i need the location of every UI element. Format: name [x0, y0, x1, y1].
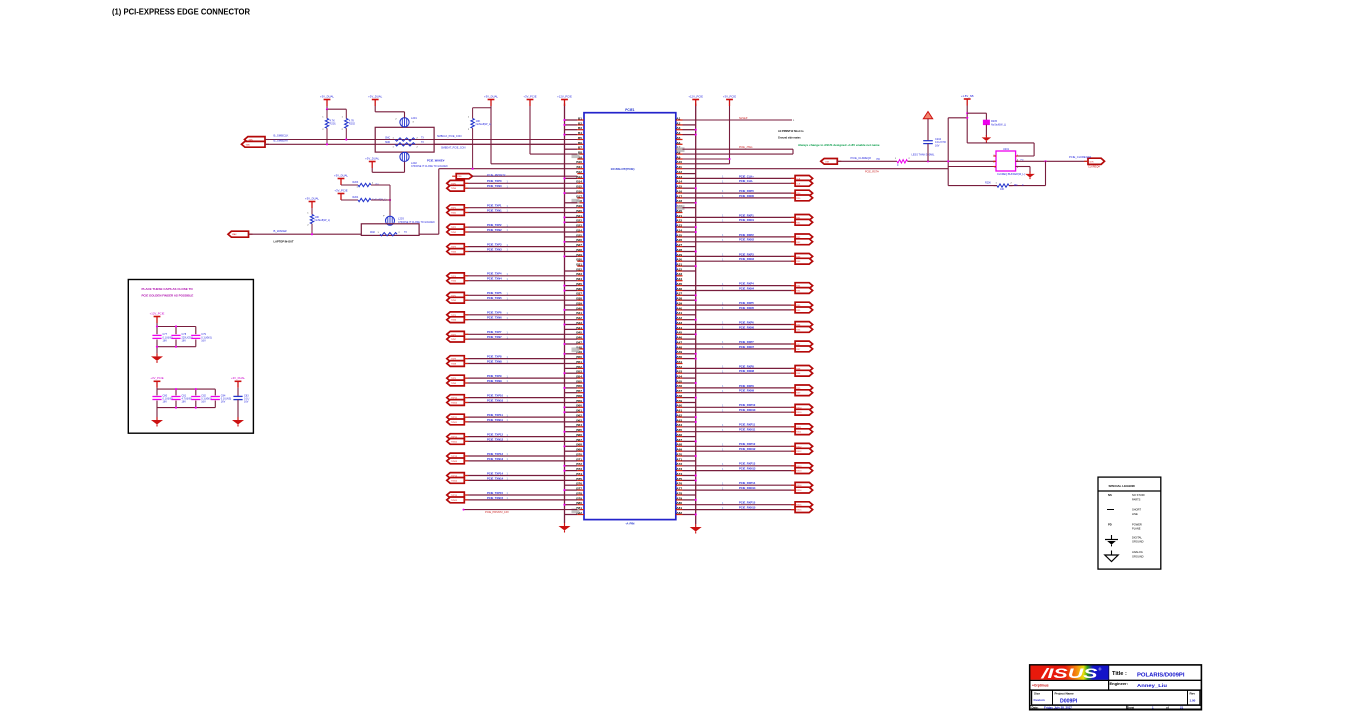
svg-text:PCIE_TXP7: PCIE_TXP7 [487, 330, 502, 334]
svg-text:A3: A3 [676, 126, 680, 130]
svg-text:A26: A26 [676, 238, 682, 242]
legend row 1 NS [1108, 493, 1145, 501]
svg-text:A49: A49 [676, 350, 682, 354]
svg-text:PCIE_TXP14: PCIE_TXP14 [487, 471, 503, 475]
wire R_SMB1 to SMBDAT [326, 128, 328, 144]
svg-text:16V: 16V [244, 401, 249, 404]
port PCIEX16_CLKREQ far right [1069, 155, 1105, 169]
cap ladder 2 wires [157, 388, 215, 417]
svg-text:TXN11: TXN11 [451, 422, 458, 424]
power arrow VCC right circuit [923, 112, 932, 141]
svg-text:PCIE_PRSNT2: PCIE_PRSNT2 [487, 173, 506, 177]
svg-text:PCIE_RXN13: PCIE_RXN13 [739, 467, 756, 471]
svg-text:A28: A28 [676, 248, 682, 252]
svg-text:PCIE_CLKREQ1#: PCIE_CLKREQ1# [1069, 155, 1091, 159]
svg-text:LAPTOP IN-OUT: LAPTOP IN-OUT [274, 240, 294, 244]
differential pair RX15 wires [683, 501, 796, 510]
title text [1112, 671, 1185, 678]
svg-text:TX: TX [421, 137, 424, 139]
svg-text:B30: B30 [576, 258, 582, 262]
svg-text:Ground side mates: Ground side mates [778, 136, 801, 139]
svg-text:+Orptimus: +Orptimus [1032, 684, 1049, 688]
svg-text:PCIE_RXP15: PCIE_RXP15 [739, 501, 756, 505]
top loop wire right circuit [947, 117, 968, 186]
svg-text:PCIE_TXP9: PCIE_TXP9 [487, 374, 502, 378]
resistor R_WAKE2 pullup from +3V [468, 108, 491, 170]
project name row [1032, 690, 1200, 705]
differential pair RX3 wires [683, 252, 796, 261]
svg-text:PCIE_CLK-: PCIE_CLK- [739, 179, 753, 183]
svg-text:PCIE_TXP10: PCIE_TXP10 [487, 394, 503, 398]
svg-text:PCIE_JTAG: PCIE_JTAG [739, 146, 752, 149]
differential pair RX14 wires [683, 481, 796, 490]
wire R_SMB2 to SMBCLK [345, 128, 347, 139]
differential pair PCIE_TX11 wires [464, 413, 577, 422]
svg-text:B_SMBDAT: B_SMBDAT [274, 139, 289, 143]
svg-text:PCIE_TXN4: PCIE_TXN4 [487, 277, 502, 281]
common-mode choke box L_SMB [375, 127, 434, 152]
svg-text:R203: R203 [353, 181, 359, 184]
svg-text:Title :: Title : [1112, 671, 1127, 677]
svg-text:A38: A38 [676, 297, 682, 301]
wire B81 PRSNT2 bottom [463, 509, 578, 515]
svg-text:PCIE_TXP13: PCIE_TXP13 [487, 452, 503, 456]
svg-text:A24: A24 [676, 228, 682, 232]
svg-text:A47: A47 [676, 340, 682, 344]
svg-text:A55: A55 [676, 379, 682, 383]
svg-text:NoStuff(W_L): NoStuff(W_L) [991, 123, 1006, 126]
svg-text:PCIE_TXP8: PCIE_TXP8 [487, 355, 502, 359]
svg-text:A23: A23 [676, 224, 682, 228]
differential pair PCIE_TX5 wires [464, 291, 577, 300]
svg-text:Engineer:: Engineer: [1110, 681, 1128, 686]
port B_PCIE_WAKE far left [228, 231, 249, 237]
box pin stubs red [993, 156, 1018, 167]
svg-text:A2: A2 [676, 121, 680, 125]
svg-text:PCIE_RXP5: PCIE_RXP5 [739, 301, 754, 305]
svg-text:PCIE_TXP3: PCIE_TXP3 [487, 243, 502, 247]
wire B_SMBCLK B5 [265, 139, 577, 141]
svg-text:A67: A67 [676, 438, 682, 442]
svg-text:PCIE_RXP8: PCIE_RXP8 [739, 364, 754, 368]
svg-text:DIGITAL: DIGITAL [1132, 536, 1142, 540]
svg-text:Anney_Liu: Anney_Liu [1137, 683, 1167, 689]
differential pair RX2 wires [683, 233, 796, 242]
svg-text:TXN10: TXN10 [451, 403, 458, 405]
ground symbol box [1029, 172, 1031, 174]
wire power to choke top [374, 106, 376, 112]
capacitor C2a [152, 394, 173, 403]
svg-text:PCIE_TXP1: PCIE_TXP1 [487, 204, 502, 208]
svg-text:PCIE_RXP0: PCIE_RXP0 [739, 189, 754, 193]
svg-text:PCIE_RXP14: PCIE_RXP14 [739, 481, 756, 485]
svg-text:PCIE_RXN9: PCIE_RXN9 [739, 389, 754, 393]
svg-text:+3V_DUAL: +3V_DUAL [320, 94, 335, 98]
svg-text:A63: A63 [676, 418, 682, 422]
bottom loop wire with resistor [948, 161, 1045, 191]
svg-text:A27: A27 [676, 243, 682, 247]
svg-text:A71: A71 [676, 457, 682, 461]
port RX3 pair [791, 254, 813, 265]
ground symbol notes circuit 2 [156, 417, 158, 420]
svg-text:A12: A12 [676, 170, 682, 174]
svg-text:B4: B4 [578, 131, 582, 135]
svg-text:B_SMBCLK: B_SMBCLK [274, 133, 289, 137]
svg-text:ANALOG: ANALOG [1132, 550, 1143, 554]
svg-text:WAK: WAK [232, 233, 237, 236]
ASUS logo [1030, 665, 1108, 681]
svg-text:PCIE_RXP13: PCIE_RXP13 [739, 462, 756, 466]
svg-text:A6: A6 [676, 141, 680, 145]
legend box frame [1098, 477, 1161, 569]
svg-text:A10: A10 [676, 160, 682, 164]
svg-text:16V: 16V [201, 401, 206, 404]
title block frame [1030, 665, 1202, 710]
svg-text:A11: A11 [676, 165, 682, 169]
svg-text:A51: A51 [676, 360, 682, 364]
svg-text:PD: PD [1014, 184, 1018, 187]
ferrite bead FB (magenta) [983, 120, 1006, 126]
differential pair PCIE_TX0 wires [464, 179, 577, 188]
svg-text:A58: A58 [676, 394, 682, 398]
svg-text:A64: A64 [676, 423, 682, 427]
svg-text:TXN2: TXN2 [451, 232, 457, 234]
differential pair RX0 wires [683, 189, 796, 198]
svg-text:PLANE: PLANE [1132, 527, 1141, 531]
svg-text:PCIE GOLDEN FINGER AS POSSIBLE: PCIE GOLDEN FINGER AS POSSIBLE [142, 293, 194, 297]
svg-text:PCIE_RXP4: PCIE_RXP4 [739, 282, 754, 286]
svg-text:TXN9: TXN9 [451, 383, 457, 385]
svg-text:A14: A14 [676, 180, 682, 184]
svg-text:TXN12: TXN12 [451, 441, 458, 443]
svg-text:A65: A65 [676, 428, 682, 432]
wire A1 PRSNT1 [683, 117, 796, 122]
legend row 4 digital ground symbol [1105, 535, 1144, 546]
svg-text:TXN13: TXN13 [451, 461, 458, 463]
svg-text:PCIE_RXP3: PCIE_RXP3 [739, 252, 754, 256]
differential pair RX10 wires [683, 403, 796, 412]
port RX9 pair [791, 385, 813, 396]
svg-text:CLKREQ#: CLKREQ# [1088, 166, 1100, 169]
svg-text:®: ® [1099, 668, 1102, 672]
svg-text:PCIE_TXN14: PCIE_TXN14 [487, 476, 504, 480]
resistor R_WAKE pullup [307, 208, 330, 227]
svg-text:A77: A77 [676, 487, 682, 491]
svg-text:PCIE_TXN5: PCIE_TXN5 [487, 296, 502, 300]
svg-text:PD: PD [877, 158, 881, 161]
svg-text:A46: A46 [676, 336, 682, 340]
wire power branch to box pin4 [967, 143, 1034, 156]
svg-text:A68: A68 [676, 443, 682, 447]
wires SMB pair from choke to connector [434, 139, 577, 141]
port B_SMBCLK/B_SMBDAT pair far left [242, 137, 270, 148]
port RX12 pair [791, 443, 813, 454]
port RX14 pair [791, 482, 813, 493]
svg-text:R204: R204 [353, 196, 359, 199]
svg-text:16V: 16V [163, 401, 168, 404]
ground symbol right rail bottom [695, 524, 697, 527]
svg-text:PCIE_TXP12: PCIE_TXP12 [487, 432, 503, 436]
svg-text:NoStuff(W_L): NoStuff(W_L) [476, 122, 492, 126]
svg-text:U201: U201 [1003, 148, 1010, 151]
choke coil bottom L2 [400, 152, 448, 168]
svg-text:GROUND: GROUND [1132, 540, 1144, 544]
svg-text:PCIE_TXP4: PCIE_TXP4 [487, 272, 502, 276]
wire R_WAKE to wake net [311, 224, 313, 234]
svg-text:PCIE_RXN1: PCIE_RXN1 [739, 218, 754, 222]
svg-text:PCIE_RXP7: PCIE_RXP7 [739, 340, 754, 344]
svg-text:PCIE_RXN14: PCIE_RXN14 [739, 486, 756, 490]
port PCIE_TX4 pair [447, 273, 469, 284]
svg-text:PCIE_TXN3: PCIE_TXN3 [487, 247, 502, 251]
svg-text:A25: A25 [676, 233, 682, 237]
differential pair PCIE_TX4 wires [464, 272, 577, 281]
svg-text:PCIE_RXN11: PCIE_RXN11 [739, 428, 756, 432]
svg-text:CHOOSE IT CLOSE TO GOLDEN: CHOOSE IT CLOSE TO GOLDEN [411, 165, 448, 168]
svg-text:+3V_DUAL: +3V_DUAL [368, 94, 383, 98]
svg-text:D009PI: D009PI [1060, 698, 1078, 704]
svg-text:B_WAKE#: B_WAKE# [274, 229, 288, 233]
vertical riser wake to B11 [438, 169, 440, 235]
svg-text:PCIE_TXN0: PCIE_TXN0 [487, 184, 502, 188]
svg-text:PCIE_RXN6: PCIE_RXN6 [739, 325, 754, 329]
ground symbol left rail bottom [564, 523, 566, 526]
differential pair PCIE_TX9 wires [464, 374, 577, 383]
svg-text:PCIE_CLKREQ#: PCIE_CLKREQ# [851, 156, 872, 160]
svg-text:Rev: Rev [1190, 691, 1196, 695]
svg-text:A73: A73 [676, 467, 682, 471]
svg-text:A36: A36 [676, 287, 682, 291]
differential pair RX5 wires [683, 301, 796, 310]
wire riser to pin B11 [439, 168, 578, 170]
resistor R2 row2 [341, 196, 387, 202]
port RX13 pair [791, 463, 813, 474]
differential pair RX6 wires [683, 320, 796, 329]
svg-text:PCIE_TXP0: PCIE_TXP0 [487, 179, 502, 183]
svg-text:+3V_DUAL: +3V_DUAL [305, 196, 320, 200]
port PCIE_TX2 pair [447, 224, 469, 235]
svg-text:+3V_PCIE: +3V_PCIE [723, 94, 736, 98]
port RX6 pair [791, 322, 813, 333]
port PCIE_TX10 pair [447, 395, 469, 406]
differential pair PCIE_TX15 wires [464, 491, 577, 500]
svg-text:RX13: RX13 [796, 471, 802, 473]
svg-text:PCIE_RXN4: PCIE_RXN4 [739, 286, 754, 290]
svg-text:TXN14: TXN14 [451, 480, 458, 482]
wire WAKE to choke box [249, 233, 362, 235]
svg-text:A54: A54 [676, 375, 682, 379]
svg-text:PCIE_TXN11: PCIE_TXN11 [487, 418, 503, 422]
svg-text:1X16SLOT(PCIE): 1X16SLOT(PCIE) [611, 167, 635, 171]
svg-text:A41: A41 [676, 311, 682, 315]
svg-text:A17: A17 [676, 194, 682, 198]
svg-text:PCIE_RXP11: PCIE_RXP11 [739, 423, 756, 427]
differential pair RX13 wires [683, 462, 796, 471]
svg-text:A29: A29 [676, 253, 682, 257]
differential pair PCIE_TX2 wires [464, 223, 577, 232]
svg-text:PCIE_RXP2: PCIE_RXP2 [739, 233, 754, 237]
wire CLKREQ to resistor [837, 160, 897, 162]
port RX0 pair [791, 190, 813, 201]
svg-text:A61: A61 [676, 409, 682, 413]
svg-text:A4: A4 [676, 131, 680, 135]
svg-text:B6: B6 [578, 141, 582, 145]
svg-text:NS: NS [1108, 493, 1112, 497]
port RX7 pair [791, 341, 813, 352]
svg-text:PCIE_TXN7: PCIE_TXN7 [487, 335, 502, 339]
svg-text:PCIE_RXN7: PCIE_RXN7 [739, 345, 754, 349]
port PCIE_TX5 pair [447, 292, 469, 303]
svg-text:Date:: Date: [1032, 706, 1039, 710]
notes box frame [128, 280, 253, 434]
svg-text:-A-PIN: -A-PIN [625, 522, 634, 526]
differential pair PCIE_TX14 wires [464, 471, 577, 480]
wire ferrite to ground [985, 125, 987, 136]
port PCIE_TX15 pair [447, 492, 469, 503]
svg-text:SMD: SMD [385, 142, 390, 144]
svg-text:PD: PD [1108, 522, 1112, 526]
svg-text:SMBDAT_PCIE_CON: SMBDAT_PCIE_CON [441, 147, 466, 150]
port RX4 pair [791, 283, 813, 294]
vertical wire to wake choke coil [389, 185, 391, 216]
svg-text:+3V_PCIE: +3V_PCIE [523, 94, 536, 98]
svg-text:PCIE_RXN3: PCIE_RXN3 [739, 257, 754, 261]
svg-text:B17: B17 [576, 194, 582, 198]
wire B_SMBDAT B6 [265, 143, 577, 145]
wire box lower-left pin [948, 166, 996, 168]
svg-text:A15: A15 [676, 185, 682, 189]
svg-text:PCIE_TXN10: PCIE_TXN10 [487, 398, 504, 402]
svg-text:B1: B1 [578, 116, 582, 120]
differential pair RX11 wires [683, 423, 796, 432]
svg-text:A72: A72 [676, 462, 682, 466]
svg-text:SMC: SMC [385, 137, 390, 139]
svg-text:SHORT: SHORT [1132, 508, 1141, 512]
svg-text:A37: A37 [676, 292, 682, 296]
svg-text:SPECIAL LEGEND: SPECIAL LEGEND [1109, 484, 1136, 488]
legend row 2 short [1107, 508, 1141, 516]
differential pair PCIE_TX8 wires [464, 355, 577, 364]
svg-text:PRS: PRS [457, 176, 462, 178]
svg-text:16V: 16V [182, 340, 187, 343]
svg-text:Size: Size [1034, 691, 1040, 695]
choke coil wake [383, 216, 435, 226]
port PCIE_TX11 pair [447, 414, 469, 425]
svg-text:(1) PCI-EXPRESS EDGE CONNECTOR: (1) PCI-EXPRESS EDGE CONNECTOR [112, 7, 251, 17]
svg-text:A81: A81 [676, 506, 682, 510]
svg-text:16V: 16V [201, 340, 206, 343]
port RX8 pair [791, 366, 813, 377]
svg-text:PCIE_RXP10: PCIE_RXP10 [739, 403, 756, 407]
capacitor C_CKR [923, 138, 946, 161]
wire row1 to vertical [371, 184, 390, 186]
svg-text:PCIE_TXN9: PCIE_TXN9 [487, 379, 502, 383]
svg-text:PCIE_TXP5: PCIE_TXP5 [487, 291, 502, 295]
svg-text:+12V_PCIE: +12V_PCIE [688, 94, 703, 98]
wire wake choke to vertical riser [419, 233, 439, 235]
svg-text:LINE: LINE [1132, 512, 1138, 516]
svg-text:+3V_DUAL: +3V_DUAL [231, 376, 246, 380]
svg-text:PCIE_RXP1: PCIE_RXP1 [739, 213, 754, 217]
svg-text:B5: B5 [578, 136, 582, 140]
svg-text:16V: 16V [182, 401, 187, 404]
svg-text:Project Name: Project Name [1055, 691, 1075, 695]
wire row2 to vertical [371, 199, 390, 201]
svg-text:+3V_DUAL: +3V_DUAL [365, 156, 380, 160]
svg-text:B7: B7 [578, 146, 582, 150]
svg-text:A57: A57 [676, 389, 682, 393]
svg-text:A53: A53 [676, 370, 682, 374]
svg-text:POLARIS/D009PI: POLARIS/D009PI [1137, 672, 1185, 678]
wire +3V to pin B8 [529, 106, 531, 154]
capacitor C2b [171, 394, 192, 403]
svg-text:A13: A13 [676, 175, 682, 179]
capacitor C1b [171, 333, 193, 342]
svg-text:PCIE_TXP2: PCIE_TXP2 [487, 223, 502, 227]
right rail connection wires (GND and +12V pins) [683, 125, 697, 516]
capacitor C3 blue [233, 388, 249, 417]
svg-text:PCIE_TXP11: PCIE_TXP11 [487, 413, 503, 417]
resistor R_CKR series [895, 158, 911, 167]
svg-text:A21: A21 [676, 214, 682, 218]
port PCIE_CLKREQ left tag [821, 159, 838, 165]
port PCIE_TX1 pair [447, 205, 469, 216]
svg-text:PCIE_RXN5: PCIE_RXN5 [739, 306, 754, 310]
svg-text:R201: R201 [330, 122, 337, 126]
port PCIE_TX12 pair [447, 434, 469, 445]
port B12 single (left, top) [452, 173, 577, 179]
svg-text:+3V_DUAL: +3V_DUAL [334, 173, 349, 177]
left rail connection wires (GND and +12V pins) [563, 119, 577, 515]
svg-text:NoStuff: NoStuff [739, 117, 748, 120]
svg-text:TXN8: TXN8 [451, 364, 457, 366]
svg-text:16V: 16V [221, 401, 226, 404]
resistor R_SMB1 pullup [322, 109, 336, 131]
differential pair RX4 wires [683, 282, 796, 291]
wire A7-A8 TDO-TMS loop [683, 146, 794, 154]
svg-text:PCIE_WAKE#: PCIE_WAKE# [427, 159, 445, 163]
svg-text:POWER: POWER [1132, 522, 1142, 526]
svg-text:SMBCLK_PCIE_CON: SMBCLK_PCIE_CON [437, 135, 462, 138]
svg-text:PCIE_TXN13: PCIE_TXN13 [487, 457, 504, 461]
svg-text:/ISUS: /ISUS [1040, 665, 1099, 681]
svg-text:CKR: CKR [825, 161, 830, 163]
svg-text:PCIE_RST#: PCIE_RST# [865, 170, 879, 173]
svg-text:PCIE_TXN8: PCIE_TXN8 [487, 359, 502, 363]
svg-text:A79: A79 [676, 496, 682, 500]
wire +3V to pin B10 [490, 106, 492, 164]
svg-text:TXN3: TXN3 [451, 252, 457, 254]
svg-text:16V: 16V [163, 340, 168, 343]
resistor R1 row1 [341, 181, 379, 188]
svg-text:TXN15: TXN15 [451, 500, 458, 502]
differential pair RX8 wires [683, 364, 796, 373]
svg-text:PCIE_TXN1: PCIE_TXN1 [487, 208, 502, 212]
cap ladder 1 wires [156, 323, 196, 353]
svg-text:WAK: WAK [370, 231, 376, 234]
svg-text:A5: A5 [676, 136, 680, 140]
svg-text:PCIE_RXN2: PCIE_RXN2 [739, 238, 754, 242]
ground symbol ferrite [985, 135, 987, 137]
svg-text:PLACE THESE CAPS AS CLOSE TO: PLACE THESE CAPS AS CLOSE TO [142, 287, 194, 291]
svg-text:A18: A18 [676, 199, 682, 203]
svg-text:A31: A31 [676, 263, 682, 267]
svg-text:CLK: CLK [796, 183, 801, 185]
svg-text:A69: A69 [676, 448, 682, 452]
capacitor C1a [152, 333, 173, 342]
port RX15 pair [791, 502, 813, 513]
svg-text:A32: A32 [676, 267, 682, 271]
